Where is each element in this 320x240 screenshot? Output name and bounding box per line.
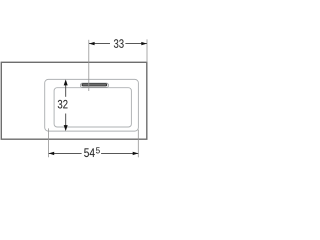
label 33	[114, 39, 119, 48]
extension line right (54.5 dim)	[137, 130, 139, 158]
basin bowl outline	[54, 88, 131, 127]
label 54	[84, 148, 89, 157]
countertop outline	[1, 62, 147, 139]
washbasin rim outline	[45, 79, 139, 131]
arrow 32 up	[64, 79, 68, 85]
arrow 32 down	[64, 125, 68, 131]
dimension line 54.5 right segment	[101, 152, 138, 154]
label 5 superscript	[96, 147, 100, 153]
dimension line 32 lower segment	[65, 114, 67, 128]
dimension line 32 upper segment	[65, 83, 67, 97]
extension line left (54.5 dim)	[48, 128, 50, 157]
dimension line 33 left segment	[89, 43, 110, 45]
arrow 33 left	[89, 42, 95, 45]
overflow slot recess outline	[80, 83, 108, 87]
dimension line 54.5 left segment	[49, 152, 82, 154]
extension line from slot centre	[88, 40, 90, 91]
arrow 54.5 left	[49, 152, 55, 155]
dimension line 33 right segment	[125, 43, 146, 45]
extension line right edge (33 dim)	[146, 39, 148, 62]
arrow 33 right	[141, 42, 147, 45]
arrow 54.5 right	[133, 152, 139, 155]
label 32	[58, 100, 63, 109]
overflow slot bar	[82, 84, 107, 86]
